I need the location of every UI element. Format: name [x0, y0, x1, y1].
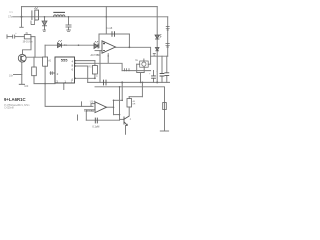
svg-text:C-025m8: C-025m8 — [4, 107, 14, 109]
svg-text:0.1uM: 0.1uM — [92, 125, 99, 128]
svg-text:AC73BN: AC73BN — [91, 54, 101, 57]
svg-text:17o: 17o — [8, 16, 13, 19]
svg-text:9+LA6R1C: 9+LA6R1C — [4, 97, 26, 102]
svg-text:P-1756/panel/Rt-V, 6r5m: P-1756/panel/Rt-V, 6r5m — [4, 104, 29, 107]
svg-text:C-xx8: C-xx8 — [106, 27, 113, 30]
svg-text:C: C — [96, 75, 98, 78]
svg-text:39-01 6w: 39-01 6w — [23, 41, 33, 44]
svg-text:U1-A: U1-A — [90, 101, 96, 104]
svg-text:LM35BN: LM35BN — [85, 110, 95, 113]
svg-text:555: 555 — [61, 57, 68, 62]
svg-text:10e: 10e — [9, 74, 14, 77]
svg-text:0R: 0R — [133, 103, 136, 105]
svg-text:100: 100 — [24, 85, 29, 88]
